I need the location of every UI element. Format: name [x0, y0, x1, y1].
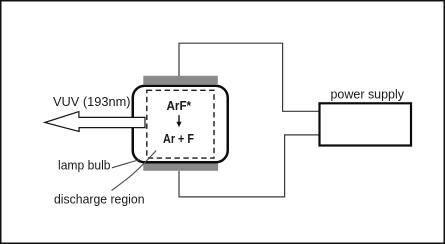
- VUV output arrow (block arrow): [45, 112, 145, 132]
- svg-text:power supply: power supply: [331, 88, 405, 102]
- leader line to discharge region: [112, 151, 157, 191]
- svg-text:ArF*: ArF*: [167, 98, 192, 113]
- electrode (top gray bar): [143, 76, 218, 84]
- power supply box: [320, 103, 412, 145]
- lamp bulb: [133, 86, 228, 163]
- svg-text:Ar + F: Ar + F: [163, 131, 194, 146]
- wire bottom (electrode to power supply): [179, 135, 319, 197]
- svg-text:VUV (193nm): VUV (193nm): [53, 95, 131, 109]
- wire top (electrode to power supply): [179, 43, 319, 111]
- electrode (bottom gray bar): [143, 163, 218, 171]
- leader line to lamp bulb: [112, 160, 140, 168]
- discharge region (dashed rectangle): [147, 90, 214, 158]
- svg-text:discharge region: discharge region: [54, 192, 145, 206]
- svg-text:lamp bulb: lamp bulb: [58, 159, 111, 173]
- reaction arrow (down): [176, 115, 181, 127]
